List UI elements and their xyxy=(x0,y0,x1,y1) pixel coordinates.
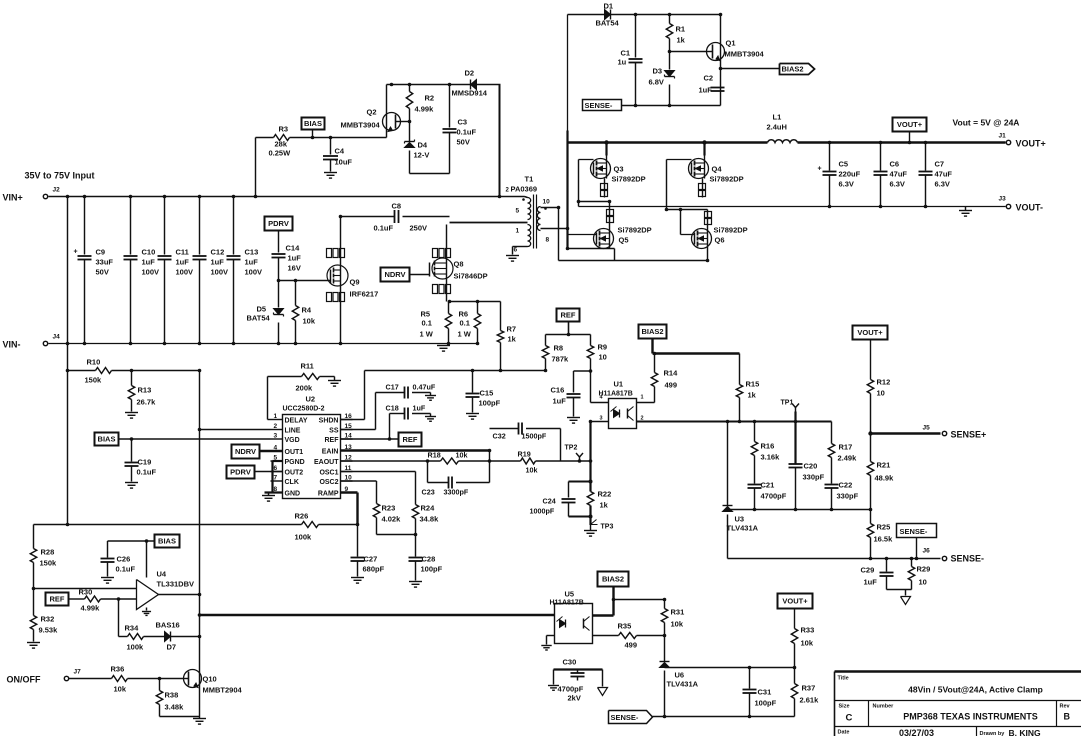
svg-text:R12: R12 xyxy=(877,378,891,387)
svg-text:47uF: 47uF xyxy=(890,170,908,179)
svg-text:1u: 1u xyxy=(618,58,627,67)
svg-text:T1: T1 xyxy=(525,175,534,184)
svg-text:1k: 1k xyxy=(508,335,517,344)
svg-text:03/27/03: 03/27/03 xyxy=(899,728,934,736)
svg-text:10k: 10k xyxy=(114,685,127,694)
svg-text:MMSD914: MMSD914 xyxy=(452,89,488,98)
svg-text:0.1uF: 0.1uF xyxy=(374,224,394,233)
svg-text:1k: 1k xyxy=(748,391,757,400)
svg-text:MMBT3904: MMBT3904 xyxy=(725,50,765,59)
svg-text:SENSE-: SENSE- xyxy=(585,101,613,110)
svg-text:+: + xyxy=(74,249,78,256)
svg-text:C20: C20 xyxy=(804,462,818,471)
svg-text:47uF: 47uF xyxy=(935,170,953,179)
svg-text:100k: 100k xyxy=(295,533,313,542)
svg-text:C32: C32 xyxy=(493,432,506,441)
svg-text:3: 3 xyxy=(600,416,603,422)
svg-text:2kV: 2kV xyxy=(568,694,581,703)
svg-text:200k: 200k xyxy=(296,384,314,393)
svg-text:2.61k: 2.61k xyxy=(800,696,820,705)
svg-text:C26: C26 xyxy=(117,555,131,564)
svg-text:1 W: 1 W xyxy=(458,330,472,339)
svg-text:OSC2: OSC2 xyxy=(319,479,338,486)
svg-text:R36: R36 xyxy=(111,665,125,674)
svg-text:C7: C7 xyxy=(935,160,945,169)
svg-text:J6: J6 xyxy=(923,548,931,555)
svg-text:Q8: Q8 xyxy=(454,260,464,269)
svg-text:6.8V: 6.8V xyxy=(649,78,664,87)
svg-text:R34: R34 xyxy=(125,624,140,633)
svg-text:3.16k: 3.16k xyxy=(761,453,781,462)
svg-text:D2: D2 xyxy=(465,69,475,78)
svg-text:TP2: TP2 xyxy=(565,445,578,452)
svg-text:J1: J1 xyxy=(999,133,1007,140)
svg-text:TLV431A: TLV431A xyxy=(727,524,759,533)
svg-text:1 W: 1 W xyxy=(420,330,434,339)
svg-text:3300pF: 3300pF xyxy=(444,488,469,497)
svg-text:C23: C23 xyxy=(422,488,435,497)
svg-text:BIAS2: BIAS2 xyxy=(782,65,804,74)
svg-text:L1: L1 xyxy=(773,113,782,122)
svg-text:7: 7 xyxy=(274,475,278,482)
svg-text:35V to 75V Input: 35V to 75V Input xyxy=(25,171,95,181)
svg-text:R4: R4 xyxy=(302,306,312,315)
svg-text:6.3V: 6.3V xyxy=(890,180,905,189)
svg-text:100V: 100V xyxy=(176,268,194,277)
svg-text:BAT54: BAT54 xyxy=(247,314,271,323)
svg-text:Si7892DP: Si7892DP xyxy=(618,226,652,235)
svg-text:R14: R14 xyxy=(664,369,679,378)
svg-text:26.7k: 26.7k xyxy=(137,398,157,407)
svg-text:10k: 10k xyxy=(801,639,814,648)
svg-text:PA0369: PA0369 xyxy=(511,185,538,194)
svg-text:1: 1 xyxy=(641,395,644,401)
svg-text:10: 10 xyxy=(877,389,885,398)
svg-text:9.53k: 9.53k xyxy=(39,626,59,635)
svg-text:C14: C14 xyxy=(286,244,301,253)
svg-text:VIN+: VIN+ xyxy=(3,193,23,203)
svg-text:2: 2 xyxy=(274,423,278,430)
svg-text:100V: 100V xyxy=(245,268,263,277)
svg-text:BIAS: BIAS xyxy=(304,119,322,128)
svg-text:R19: R19 xyxy=(518,450,531,459)
svg-text:150k: 150k xyxy=(40,559,58,568)
svg-text:TL331DBV: TL331DBV xyxy=(157,580,195,589)
svg-text:50V: 50V xyxy=(96,268,109,277)
svg-text:Title: Title xyxy=(838,676,849,682)
svg-text:U6: U6 xyxy=(675,671,685,680)
svg-text:16V: 16V xyxy=(288,264,301,273)
svg-text:R31: R31 xyxy=(671,608,685,617)
svg-text:R6: R6 xyxy=(459,310,469,319)
svg-text:R32: R32 xyxy=(41,615,55,624)
svg-text:1uF: 1uF xyxy=(553,397,567,406)
svg-text:D4: D4 xyxy=(418,141,428,150)
svg-text:R29: R29 xyxy=(917,565,931,574)
svg-text:J2: J2 xyxy=(53,187,61,194)
svg-text:R28: R28 xyxy=(41,548,55,557)
svg-text:R1: R1 xyxy=(676,25,686,34)
svg-text:680pF: 680pF xyxy=(363,565,385,574)
svg-text:C4: C4 xyxy=(335,147,345,156)
svg-text:1500pF: 1500pF xyxy=(522,432,547,441)
svg-text:8: 8 xyxy=(546,237,550,244)
svg-text:Vout = 5V @ 24A: Vout = 5V @ 24A xyxy=(953,118,1020,128)
svg-text:R26: R26 xyxy=(295,512,309,521)
svg-text:SENSE+: SENSE+ xyxy=(951,430,987,440)
svg-text:Q10: Q10 xyxy=(203,675,217,684)
svg-text:C2: C2 xyxy=(704,74,714,83)
svg-text:PDRV: PDRV xyxy=(268,219,289,228)
svg-text:EAOUT: EAOUT xyxy=(314,459,339,466)
svg-text:D3: D3 xyxy=(653,67,663,76)
svg-text:DELAY: DELAY xyxy=(285,418,308,425)
svg-text:C3: C3 xyxy=(458,118,468,127)
svg-text:Q9: Q9 xyxy=(350,278,360,287)
svg-text:C9: C9 xyxy=(96,248,106,257)
svg-text:Q3: Q3 xyxy=(614,165,624,174)
svg-text:6.3V: 6.3V xyxy=(935,180,950,189)
svg-text:Q1: Q1 xyxy=(726,39,736,48)
svg-text:+: + xyxy=(818,166,822,173)
svg-text:R17: R17 xyxy=(839,443,853,452)
svg-text:R15: R15 xyxy=(746,380,760,389)
svg-text:OUT1: OUT1 xyxy=(285,449,304,456)
svg-text:H11A817B: H11A817B xyxy=(599,391,633,398)
svg-text:R22: R22 xyxy=(598,490,612,499)
svg-text:C16: C16 xyxy=(551,386,565,395)
svg-text:1uF: 1uF xyxy=(142,258,156,267)
svg-text:VGD: VGD xyxy=(285,437,300,444)
svg-text:ON/OFF: ON/OFF xyxy=(7,675,41,685)
svg-text:Drawn by: Drawn by xyxy=(980,731,1006,736)
svg-text:1uF: 1uF xyxy=(413,404,426,413)
svg-text:6: 6 xyxy=(514,247,518,254)
svg-text:NDRV: NDRV xyxy=(384,270,405,279)
svg-text:Q6: Q6 xyxy=(715,236,725,245)
svg-text:1: 1 xyxy=(274,413,278,420)
svg-text:1uF: 1uF xyxy=(245,258,259,267)
svg-text:B. KING: B. KING xyxy=(1009,728,1042,736)
svg-text:D1: D1 xyxy=(604,2,614,11)
svg-text:Q4: Q4 xyxy=(712,165,723,174)
svg-text:UCC2580D-2: UCC2580D-2 xyxy=(283,406,325,413)
svg-text:50V: 50V xyxy=(457,138,470,147)
svg-text:SENSE-: SENSE- xyxy=(951,554,985,564)
svg-text:R33: R33 xyxy=(801,626,815,635)
svg-text:R5: R5 xyxy=(421,310,431,319)
svg-text:100pF: 100pF xyxy=(421,565,443,574)
svg-text:J7: J7 xyxy=(74,669,82,676)
svg-text:R38: R38 xyxy=(165,691,179,700)
svg-text:C18: C18 xyxy=(386,404,399,413)
svg-text:C22: C22 xyxy=(839,481,853,490)
svg-text:SS: SS xyxy=(329,428,339,435)
svg-text:REF: REF xyxy=(403,435,418,444)
svg-text:Q2: Q2 xyxy=(367,108,377,117)
svg-text:J3: J3 xyxy=(999,196,1007,203)
svg-text:0.1uF: 0.1uF xyxy=(116,565,136,574)
svg-text:Size: Size xyxy=(839,704,850,710)
svg-text:C12: C12 xyxy=(211,248,225,257)
svg-text:D7: D7 xyxy=(167,643,177,652)
svg-text:10: 10 xyxy=(543,199,551,206)
svg-text:C24: C24 xyxy=(543,497,556,506)
svg-text:R30: R30 xyxy=(79,588,93,597)
svg-text:2.49k: 2.49k xyxy=(838,454,858,463)
svg-text:VOUT+: VOUT+ xyxy=(857,328,883,337)
svg-text:Rev: Rev xyxy=(1060,704,1071,710)
svg-text:J5: J5 xyxy=(923,425,931,432)
svg-text:10: 10 xyxy=(919,578,927,587)
svg-text:R35: R35 xyxy=(618,622,632,631)
svg-text:6.3V: 6.3V xyxy=(839,180,854,189)
svg-text:0.1: 0.1 xyxy=(422,319,432,328)
svg-text:499: 499 xyxy=(665,381,678,390)
svg-text:R23: R23 xyxy=(382,504,396,513)
svg-text:5: 5 xyxy=(516,208,520,215)
svg-text:R2: R2 xyxy=(425,94,435,103)
svg-text:C13: C13 xyxy=(245,248,259,257)
svg-text:4.99k: 4.99k xyxy=(81,604,101,613)
svg-text:VIN-: VIN- xyxy=(3,340,21,350)
svg-text:1: 1 xyxy=(516,228,520,235)
svg-text:34.8k: 34.8k xyxy=(420,515,440,524)
svg-text:B: B xyxy=(1064,712,1071,722)
svg-text:BIAS: BIAS xyxy=(158,537,176,546)
svg-text:REF: REF xyxy=(561,311,576,320)
svg-text:4.99k: 4.99k xyxy=(415,105,435,114)
svg-text:BIAS2: BIAS2 xyxy=(602,575,624,584)
svg-text:1uF: 1uF xyxy=(211,258,225,267)
svg-text:100pF: 100pF xyxy=(479,399,501,408)
svg-text:R25: R25 xyxy=(877,523,891,532)
svg-text:C21: C21 xyxy=(761,481,775,490)
svg-text:4700pF: 4700pF xyxy=(761,492,787,501)
svg-text:100pF: 100pF xyxy=(755,699,777,708)
svg-text:220uF: 220uF xyxy=(839,170,861,179)
svg-text:1uF: 1uF xyxy=(176,258,190,267)
svg-text:R8: R8 xyxy=(554,344,564,353)
svg-text:IRF6217: IRF6217 xyxy=(350,290,379,299)
svg-text:H11A817B: H11A817B xyxy=(550,600,584,607)
svg-text:100V: 100V xyxy=(142,268,160,277)
svg-text:0.1: 0.1 xyxy=(460,319,470,328)
svg-text:C5: C5 xyxy=(839,160,849,169)
svg-text:10: 10 xyxy=(599,353,607,362)
svg-text:CLK: CLK xyxy=(285,479,299,486)
svg-text:0.1uF: 0.1uF xyxy=(137,468,157,477)
svg-text:D5: D5 xyxy=(257,305,267,314)
svg-text:1uF: 1uF xyxy=(699,86,713,95)
svg-text:EAIN: EAIN xyxy=(322,449,339,456)
svg-text:28k: 28k xyxy=(275,140,288,149)
svg-text:R24: R24 xyxy=(421,504,436,513)
svg-text:BIAS: BIAS xyxy=(98,435,116,444)
svg-text:MMBT2904: MMBT2904 xyxy=(203,686,243,695)
svg-text:48Vin / 5Vout@24A, Active Clam: 48Vin / 5Vout@24A, Active Clamp xyxy=(908,685,1043,695)
svg-text:C29: C29 xyxy=(861,566,875,575)
svg-text:C15: C15 xyxy=(480,389,494,398)
svg-text:R37: R37 xyxy=(802,684,816,693)
svg-text:SENSE-: SENSE- xyxy=(611,713,639,722)
svg-text:BAT54: BAT54 xyxy=(596,19,620,28)
svg-text:PDRV: PDRV xyxy=(230,468,251,477)
svg-text:100k: 100k xyxy=(127,643,145,652)
svg-text:1uF: 1uF xyxy=(288,254,302,263)
svg-text:Date: Date xyxy=(838,730,850,736)
svg-text:Number: Number xyxy=(873,704,895,710)
svg-text:VOUT+: VOUT+ xyxy=(782,597,808,606)
svg-text:U4: U4 xyxy=(157,570,167,579)
svg-text:MMBT3904: MMBT3904 xyxy=(341,121,381,130)
svg-text:RAMP: RAMP xyxy=(318,491,339,498)
svg-text:3.48k: 3.48k xyxy=(165,703,185,712)
svg-text:250V: 250V xyxy=(410,224,428,233)
svg-text:U2: U2 xyxy=(306,395,316,404)
svg-text:U5: U5 xyxy=(565,590,575,599)
svg-text:R21: R21 xyxy=(877,461,891,470)
svg-text:U3: U3 xyxy=(735,515,745,524)
svg-text:C27: C27 xyxy=(364,555,378,564)
svg-text:C28: C28 xyxy=(422,555,436,564)
svg-text:C17: C17 xyxy=(386,383,399,392)
svg-text:VOUT+: VOUT+ xyxy=(1016,139,1046,149)
svg-text:BAS16: BAS16 xyxy=(156,621,180,630)
svg-text:10k: 10k xyxy=(303,317,316,326)
svg-text:SHDN: SHDN xyxy=(319,418,339,425)
svg-text:10k: 10k xyxy=(456,451,468,460)
svg-text:R10: R10 xyxy=(87,358,101,367)
svg-text:16.5k: 16.5k xyxy=(874,535,894,544)
svg-text:R18: R18 xyxy=(428,451,441,460)
svg-text:Q5: Q5 xyxy=(619,236,629,245)
svg-text:VOUT-: VOUT- xyxy=(1016,203,1044,213)
svg-text:C: C xyxy=(846,713,853,724)
svg-text:BIAS2: BIAS2 xyxy=(641,327,663,336)
svg-text:2.4uH: 2.4uH xyxy=(767,123,787,132)
svg-text:787k: 787k xyxy=(552,355,570,364)
svg-text:C30: C30 xyxy=(563,658,577,667)
svg-text:SENSE-: SENSE- xyxy=(900,527,928,536)
svg-text:OSC1: OSC1 xyxy=(319,470,338,477)
svg-text:REF: REF xyxy=(50,595,65,604)
svg-text:GND: GND xyxy=(285,491,301,498)
svg-text:150k: 150k xyxy=(85,376,103,385)
svg-text:Si7892DP: Si7892DP xyxy=(612,175,646,184)
svg-text:PMP368 TEXAS INSTRUMENTS: PMP368 TEXAS INSTRUMENTS xyxy=(903,712,1038,722)
svg-text:Si7892DP: Si7892DP xyxy=(710,175,744,184)
svg-text:C31: C31 xyxy=(758,688,772,697)
svg-text:TP1: TP1 xyxy=(781,400,794,407)
svg-text:C10: C10 xyxy=(142,248,156,257)
svg-text:0.47uF: 0.47uF xyxy=(413,383,436,392)
svg-text:10uF: 10uF xyxy=(335,158,353,167)
svg-text:10k: 10k xyxy=(526,466,538,475)
svg-text:R9: R9 xyxy=(598,343,608,352)
svg-text:Si7846DP: Si7846DP xyxy=(454,272,488,281)
svg-text:R16: R16 xyxy=(761,442,775,451)
svg-text:TLV431A: TLV431A xyxy=(667,680,699,689)
svg-text:0.1uF: 0.1uF xyxy=(457,128,477,137)
svg-text:1k: 1k xyxy=(677,36,686,45)
svg-text:C11: C11 xyxy=(176,248,189,257)
svg-text:J4: J4 xyxy=(53,334,61,341)
svg-text:R7: R7 xyxy=(507,325,517,334)
svg-text:U1: U1 xyxy=(614,380,624,389)
svg-text:C6: C6 xyxy=(890,160,900,169)
svg-text:499: 499 xyxy=(625,641,638,650)
svg-text:C19: C19 xyxy=(138,458,152,467)
svg-text:VOUT+: VOUT+ xyxy=(897,120,923,129)
svg-text:C8: C8 xyxy=(392,202,402,211)
svg-text:10k: 10k xyxy=(671,620,684,629)
svg-text:TP3: TP3 xyxy=(601,524,614,531)
svg-text:R3: R3 xyxy=(279,125,289,134)
svg-text:R11: R11 xyxy=(301,362,314,371)
svg-text:LINE: LINE xyxy=(285,428,301,435)
svg-text:3: 3 xyxy=(274,433,278,440)
svg-text:330pF: 330pF xyxy=(803,473,825,482)
svg-text:12-V: 12-V xyxy=(414,151,430,160)
svg-text:4.02k: 4.02k xyxy=(382,515,402,524)
svg-text:33uF: 33uF xyxy=(96,258,114,267)
svg-text:REF: REF xyxy=(325,437,340,444)
svg-text:48.9k: 48.9k xyxy=(875,474,895,483)
svg-text:1000pF: 1000pF xyxy=(530,507,555,516)
svg-text:C1: C1 xyxy=(621,49,631,58)
svg-text:100V: 100V xyxy=(211,268,229,277)
svg-text:Si7892DP: Si7892DP xyxy=(714,226,748,235)
svg-text:4700pF: 4700pF xyxy=(558,685,584,694)
svg-text:1uF: 1uF xyxy=(864,578,878,587)
svg-text:NDRV: NDRV xyxy=(235,447,256,456)
svg-text:1k: 1k xyxy=(600,501,609,510)
svg-text:330pF: 330pF xyxy=(837,492,859,501)
svg-text:R13: R13 xyxy=(138,386,152,395)
svg-text:OUT2: OUT2 xyxy=(285,470,304,477)
svg-text:0.25W: 0.25W xyxy=(269,149,292,158)
svg-text:PGND: PGND xyxy=(285,459,305,466)
